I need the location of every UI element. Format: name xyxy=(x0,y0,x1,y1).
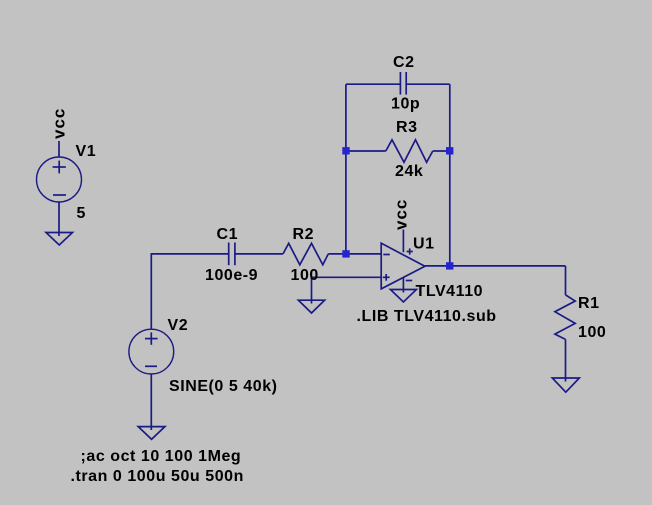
op-amp U1 inverting input pin mark (-) xyxy=(383,254,390,256)
wire: C1 right plate to R2 xyxy=(235,253,283,255)
wire: R3 left lead xyxy=(346,150,386,152)
svg-text:U1: U1 xyxy=(413,235,435,252)
wire: V1 bottom to ground xyxy=(58,202,60,236)
ground (below V2) xyxy=(138,427,165,440)
svg-text:vcc: vcc xyxy=(392,199,411,230)
wire: R1 top lead vertical xyxy=(565,266,567,295)
op-amp U1 negative supply pin mark (-) xyxy=(406,280,412,282)
svg-text:24k: 24k xyxy=(395,163,423,180)
resistor R2 (zigzag body) xyxy=(283,243,328,264)
wire: non-inverting input horizontal xyxy=(312,276,382,278)
wire: V2 bottom to ground xyxy=(150,374,152,430)
wire: C2 top left segment xyxy=(346,83,400,85)
resistor R3 (zigzag body) xyxy=(386,140,433,163)
svg-text:C1: C1 xyxy=(217,226,239,243)
wire: output net horizontal to R1 xyxy=(425,265,566,267)
svg-text:10p: 10p xyxy=(391,96,420,113)
svg-text:100: 100 xyxy=(578,324,606,341)
ground (below R1) xyxy=(552,378,579,392)
resistor R1 (vertical zigzag body) xyxy=(555,295,575,340)
wire: op-amp negative supply stub to ground xyxy=(402,278,404,293)
junction: inverting input node xyxy=(342,250,349,257)
wire: V2 top vertical up to input net xyxy=(150,254,152,330)
junction: output node xyxy=(446,262,453,269)
svg-text:TLV4110: TLV4110 xyxy=(416,283,484,300)
wire: non-inverting input drop to ground xyxy=(311,277,313,303)
op-amp U1 triangle body xyxy=(381,243,425,289)
wire: R2 to op-amp inverting input (through junction) xyxy=(328,253,381,255)
svg-text:V2: V2 xyxy=(168,317,189,334)
ground (below V1) xyxy=(46,233,73,246)
svg-text:100e-9: 100e-9 xyxy=(205,267,258,284)
capacitor C1 xyxy=(229,243,235,266)
wire: vcc stub above op-amp xyxy=(402,230,404,253)
wire: R1 bottom lead to ground xyxy=(565,339,567,381)
svg-text:C2: C2 xyxy=(393,54,415,71)
svg-text:.LIB TLV4110.sub: .LIB TLV4110.sub xyxy=(357,308,497,325)
wire: right vertical feedback branch (C2/R3 right side to output) xyxy=(449,84,451,266)
svg-text:V1: V1 xyxy=(76,143,97,160)
ground (below op-amp U1) xyxy=(390,290,416,303)
wire: input net horizontal, V2 to C1 left plate xyxy=(151,253,229,255)
svg-text:.tran 0 100u 50u 500n: .tran 0 100u 50u 500n xyxy=(71,468,244,485)
svg-text:5: 5 xyxy=(77,205,86,222)
svg-text:SINE(0 5 40k): SINE(0 5 40k) xyxy=(169,378,278,395)
capacitor C2 xyxy=(400,72,406,95)
svg-text:R2: R2 xyxy=(293,226,315,243)
svg-text:vcc: vcc xyxy=(50,108,69,139)
svg-text:R3: R3 xyxy=(396,119,418,136)
wire: R3 right lead xyxy=(433,150,450,152)
wire: C2 top right segment xyxy=(406,83,450,85)
junction: R3 right node xyxy=(446,147,453,154)
op-amp U1 positive supply pin mark (+) xyxy=(407,248,413,254)
svg-text:;ac oct 10 100 1Meg: ;ac oct 10 100 1Meg xyxy=(81,448,242,465)
junction: R3 left node xyxy=(342,147,349,154)
voltage source V1 (circle with plus/minus) xyxy=(37,157,82,202)
svg-text:100: 100 xyxy=(291,267,319,284)
op-amp U1 non-inverting input pin mark (+) xyxy=(383,274,390,281)
wire: V1 top stub to vcc label xyxy=(58,141,60,158)
svg-text:R1: R1 xyxy=(578,295,600,312)
ground (non-inverting input) xyxy=(298,300,324,313)
wire: left vertical feedback branch (C2/R3 left side) xyxy=(345,84,347,254)
voltage source V2 (circle with plus/minus) xyxy=(129,329,174,374)
